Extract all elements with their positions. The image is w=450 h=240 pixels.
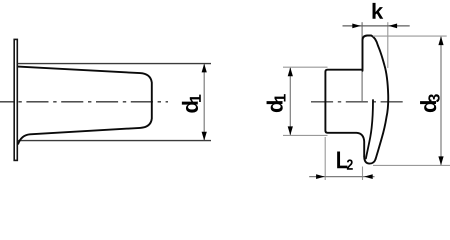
L2 extension right (362, 167, 364, 181)
L2 arrow left (pointing right) (316, 174, 325, 179)
rivet head outline (right view) (363, 36, 389, 160)
d3 extension bottom (373, 164, 450, 166)
label d1 left view (182, 95, 201, 113)
d1 extension bottom (right view) (283, 134, 328, 136)
L2 extension left (324, 137, 326, 180)
d1 dimension line (right view) (289, 68, 291, 135)
rivet head flange (left view) (14, 39, 17, 160)
extension line top d1 left view (18, 63, 211, 65)
arrow up d1 left view (202, 64, 207, 73)
k dimension line (343, 25, 410, 27)
centerline left view (0, 101, 168, 103)
rivet body outline (right view) (325, 70, 364, 157)
k extension line right (387, 22, 389, 68)
arrow down d1 left view (202, 132, 207, 141)
d3 extension top (373, 35, 447, 37)
arrow down d3 (438, 156, 443, 165)
head inner edge curve (right view) (366, 100, 373, 159)
arrow down d1 right view (288, 126, 293, 135)
k arrow left (pointing right) (352, 24, 361, 29)
label k (373, 3, 384, 19)
k arrow right (pointing left) (389, 24, 398, 29)
arrow up d1 right view (288, 67, 293, 76)
label L2 (337, 151, 353, 169)
extension line bottom d1 left view (18, 140, 211, 142)
L2 dimension line (309, 176, 374, 178)
label d1 right view (267, 94, 286, 112)
k extension line left (361, 22, 363, 101)
label d3 (420, 94, 440, 112)
dimension line d1 left view (203, 64, 205, 140)
arrow up d3 (438, 36, 443, 45)
d1 extension top (right view) (283, 66, 328, 68)
centerline right view (311, 101, 403, 103)
head bottom curl (right view) (364, 157, 375, 164)
L2 arrow right (pointing left) (364, 174, 373, 179)
d3 dimension line (440, 37, 442, 165)
rivet body outline (left view) (18, 67, 152, 145)
